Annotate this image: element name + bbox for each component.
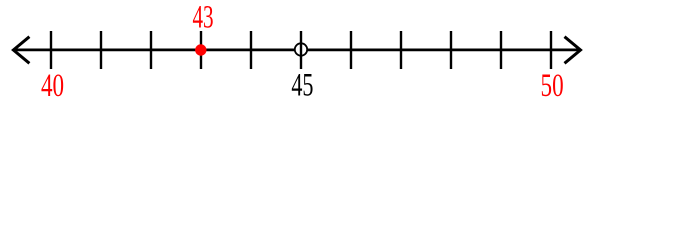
- tick 46: [350, 31, 352, 69]
- tick 48: [450, 31, 452, 69]
- svg-text:40: 40: [41, 68, 64, 100]
- wire main number line: [13, 49, 580, 52]
- tick 40: [50, 31, 52, 69]
- tick 43: [200, 31, 202, 69]
- tick 41: [100, 31, 102, 69]
- tick 42: [150, 31, 152, 69]
- svg-text:50: 50: [541, 68, 564, 100]
- svg-text:45: 45: [291, 67, 313, 100]
- tick 49: [500, 31, 502, 69]
- tick 47: [400, 31, 402, 69]
- right arrowhead: [565, 37, 581, 64]
- tick 45: [300, 31, 302, 69]
- svg-text:43: 43: [192, 0, 213, 35]
- node 45 open circle: [295, 43, 307, 55]
- left arrowhead: [13, 37, 29, 64]
- tick 50: [550, 31, 552, 69]
- tick 44: [250, 31, 252, 69]
- node 43 red dot: [195, 44, 206, 55]
